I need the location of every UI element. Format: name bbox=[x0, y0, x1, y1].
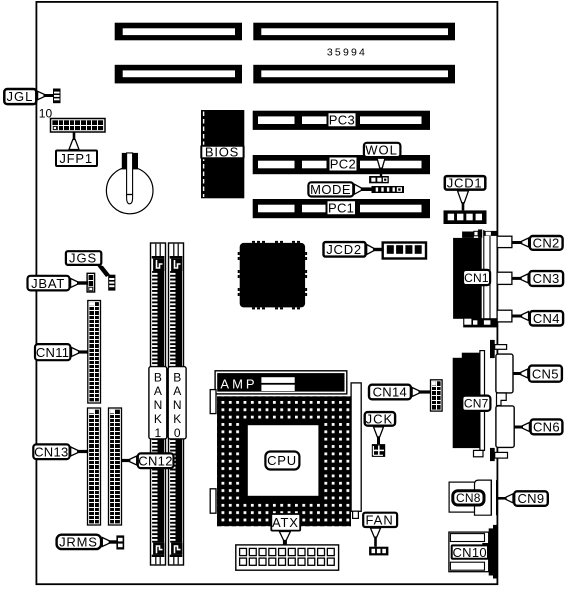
callout tail JCK bbox=[374, 427, 384, 444]
callout tail CN6 bbox=[514, 423, 529, 432]
svg-text:A: A bbox=[173, 384, 181, 398]
callout tail CN12 bbox=[122, 456, 137, 465]
CPU socket body bbox=[217, 396, 351, 526]
svg-text:BIOS: BIOS bbox=[205, 145, 239, 160]
svg-text:CN6: CN6 bbox=[533, 420, 560, 435]
svg-text:0: 0 bbox=[174, 426, 181, 440]
label CN14 bbox=[369, 385, 411, 400]
callout tail CN2 bbox=[512, 238, 529, 247]
connector ATX power bbox=[236, 545, 339, 570]
label CN3 bbox=[529, 271, 563, 286]
callout tail WOL bbox=[377, 158, 385, 176]
connector JGL jumper bbox=[53, 89, 61, 104]
svg-text:CN10: CN10 bbox=[452, 545, 486, 560]
connector FAN bbox=[369, 547, 388, 556]
svg-text:JCD2: JCD2 bbox=[326, 242, 362, 257]
svg-text:CN7: CN7 bbox=[464, 397, 489, 411]
callout tail JGS bbox=[96, 264, 110, 277]
label CN6 bbox=[531, 419, 563, 434]
label CN13 bbox=[33, 444, 69, 459]
svg-text:A: A bbox=[154, 384, 162, 398]
svg-text:N: N bbox=[154, 398, 163, 412]
svg-text:ATX: ATX bbox=[272, 515, 299, 530]
AMP retention bar bbox=[215, 371, 347, 394]
label BIOS bbox=[201, 145, 243, 160]
svg-text:CN13: CN13 bbox=[34, 444, 68, 459]
label JCD2 bbox=[324, 242, 366, 257]
svg-text:JFP1: JFP1 bbox=[59, 151, 93, 166]
battery bbox=[106, 153, 153, 214]
svg-text:JCD1: JCD1 bbox=[447, 176, 483, 191]
svg-text:CN11: CN11 bbox=[36, 345, 69, 360]
callout tail CN11 bbox=[72, 348, 89, 357]
socket lever bar right bbox=[351, 383, 361, 519]
callout tail CN9 bbox=[498, 494, 513, 503]
svg-text:B: B bbox=[173, 370, 181, 384]
port CN6 D-sub bbox=[496, 406, 514, 448]
svg-text:PC3: PC3 bbox=[329, 112, 355, 127]
svg-text:CPU: CPU bbox=[267, 453, 297, 468]
tab between CN5/CN6 bbox=[497, 393, 507, 406]
connector JCK bbox=[372, 444, 385, 457]
svg-text:CN9: CN9 bbox=[517, 491, 544, 506]
ISA slot segment 1A bbox=[115, 23, 242, 41]
label JRMS bbox=[57, 535, 102, 550]
port stub CN3 bbox=[497, 272, 512, 284]
callout tail JCD1 bbox=[458, 191, 469, 211]
label PC2 bbox=[329, 157, 358, 172]
label JGS bbox=[66, 251, 101, 266]
label CN5 bbox=[529, 366, 562, 382]
board outline bbox=[36, 2, 497, 584]
svg-text:WOL: WOL bbox=[365, 143, 398, 158]
callout tail JRMS bbox=[102, 538, 117, 547]
port stub CN4 bbox=[497, 310, 512, 322]
label WOL bbox=[364, 143, 401, 158]
label PC1 bbox=[327, 200, 357, 215]
label FAN bbox=[363, 513, 397, 528]
label CN4 bbox=[530, 311, 563, 326]
callout tail JFP1 bbox=[69, 132, 79, 150]
svg-text:CN2: CN2 bbox=[533, 236, 560, 251]
svg-text:CN8: CN8 bbox=[456, 491, 481, 505]
svg-text:N: N bbox=[173, 398, 182, 412]
label JFP1 bbox=[56, 151, 97, 167]
svg-text:JRMS: JRMS bbox=[59, 535, 98, 550]
port stub CN2 bbox=[497, 236, 512, 247]
svg-text:CN4: CN4 bbox=[533, 311, 560, 326]
callout tail CN3 bbox=[512, 274, 528, 283]
svg-text:CN1: CN1 bbox=[464, 271, 489, 285]
port CN5 D-sub bbox=[496, 354, 513, 393]
connector MODE jumper bbox=[372, 186, 405, 193]
svg-text:CN5: CN5 bbox=[532, 366, 559, 381]
connector CN12 pin header bbox=[109, 408, 122, 525]
BIOS chip bbox=[201, 110, 244, 198]
svg-text:PC1: PC1 bbox=[328, 201, 354, 216]
connector CN11 pin header bbox=[88, 301, 101, 404]
connector JCD2 bbox=[383, 243, 426, 259]
label MODE bbox=[308, 182, 353, 197]
label CN2 bbox=[530, 236, 563, 251]
svg-text:FAN: FAN bbox=[365, 513, 393, 528]
svg-text:JGS: JGS bbox=[69, 251, 97, 266]
svg-text:35994: 35994 bbox=[327, 47, 367, 59]
svg-text:JGL: JGL bbox=[6, 89, 33, 104]
svg-text:JBAT: JBAT bbox=[31, 276, 65, 291]
callout tail ATX bbox=[279, 532, 290, 545]
socket clip left top bbox=[210, 390, 216, 414]
label JGL bbox=[4, 89, 36, 104]
connector CN13 pin header bbox=[88, 408, 101, 525]
label CN7 bbox=[462, 396, 490, 411]
svg-text:B: B bbox=[154, 370, 162, 384]
label JCK bbox=[365, 412, 395, 427]
connector JRMS jumper bbox=[116, 535, 124, 549]
ISA slot segment 2B bbox=[253, 65, 455, 84]
callout tail MODE bbox=[354, 184, 372, 194]
svg-text:AMP: AMP bbox=[220, 377, 257, 392]
svg-text:PC2: PC2 bbox=[330, 157, 356, 172]
label CN12 bbox=[138, 453, 174, 468]
callout tail CN5 bbox=[513, 369, 528, 378]
PCI PC3 slot bbox=[253, 111, 430, 130]
label JBAT bbox=[28, 276, 70, 291]
label CN1 bbox=[463, 270, 490, 285]
PCI PC1 slot bbox=[253, 199, 430, 218]
svg-text:CN3: CN3 bbox=[533, 271, 560, 286]
svg-text:CN14: CN14 bbox=[373, 385, 407, 400]
socket clip left bottom bbox=[210, 489, 216, 513]
svg-text:K: K bbox=[154, 412, 162, 426]
ISA slot segment 1B bbox=[253, 23, 455, 41]
label CN9 bbox=[514, 491, 548, 506]
label BANK0 bbox=[168, 367, 186, 440]
connector JFP1 header bbox=[51, 119, 106, 133]
svg-text:CN12: CN12 bbox=[138, 453, 172, 468]
BANK0 DIMM slot bbox=[169, 243, 184, 565]
PCI PC2 slot bbox=[253, 155, 430, 174]
label CN11 bbox=[35, 344, 70, 360]
label PC3 bbox=[328, 112, 357, 127]
svg-text:1: 1 bbox=[155, 426, 162, 440]
connector CN14 header bbox=[431, 380, 443, 411]
svg-text:K: K bbox=[173, 412, 181, 426]
connector CN8 bbox=[449, 480, 497, 515]
callout tail JBAT bbox=[71, 279, 88, 288]
label CPU bbox=[265, 452, 299, 470]
label CN10 bbox=[452, 545, 488, 560]
callout tail CN13 bbox=[71, 447, 89, 456]
svg-text:MODE: MODE bbox=[310, 182, 351, 197]
connector JGS jumper bbox=[108, 275, 115, 291]
label JCD1 bbox=[445, 176, 486, 191]
chipset IC bbox=[238, 241, 307, 310]
connector CN10 bbox=[449, 525, 498, 579]
callout tail CN14 bbox=[412, 388, 431, 397]
callout tail JGL bbox=[38, 91, 55, 99]
callout tail FAN bbox=[371, 528, 381, 547]
connector JCD1 bbox=[444, 210, 487, 224]
callout tail CN4 bbox=[512, 312, 529, 321]
label ATX bbox=[271, 514, 300, 531]
ISA slot segment 2A bbox=[115, 65, 242, 84]
connector WOL header bbox=[369, 176, 389, 183]
connector CN1 block bbox=[453, 229, 497, 327]
BANK1 DIMM slot bbox=[151, 243, 166, 565]
connector CN7 block bbox=[453, 340, 508, 461]
callout tail JCD2 bbox=[367, 245, 384, 255]
label BANK1 bbox=[149, 367, 167, 440]
svg-text:JCK: JCK bbox=[366, 412, 394, 427]
label CN8 bbox=[453, 491, 484, 506]
connector JBAT jumper bbox=[87, 273, 95, 292]
